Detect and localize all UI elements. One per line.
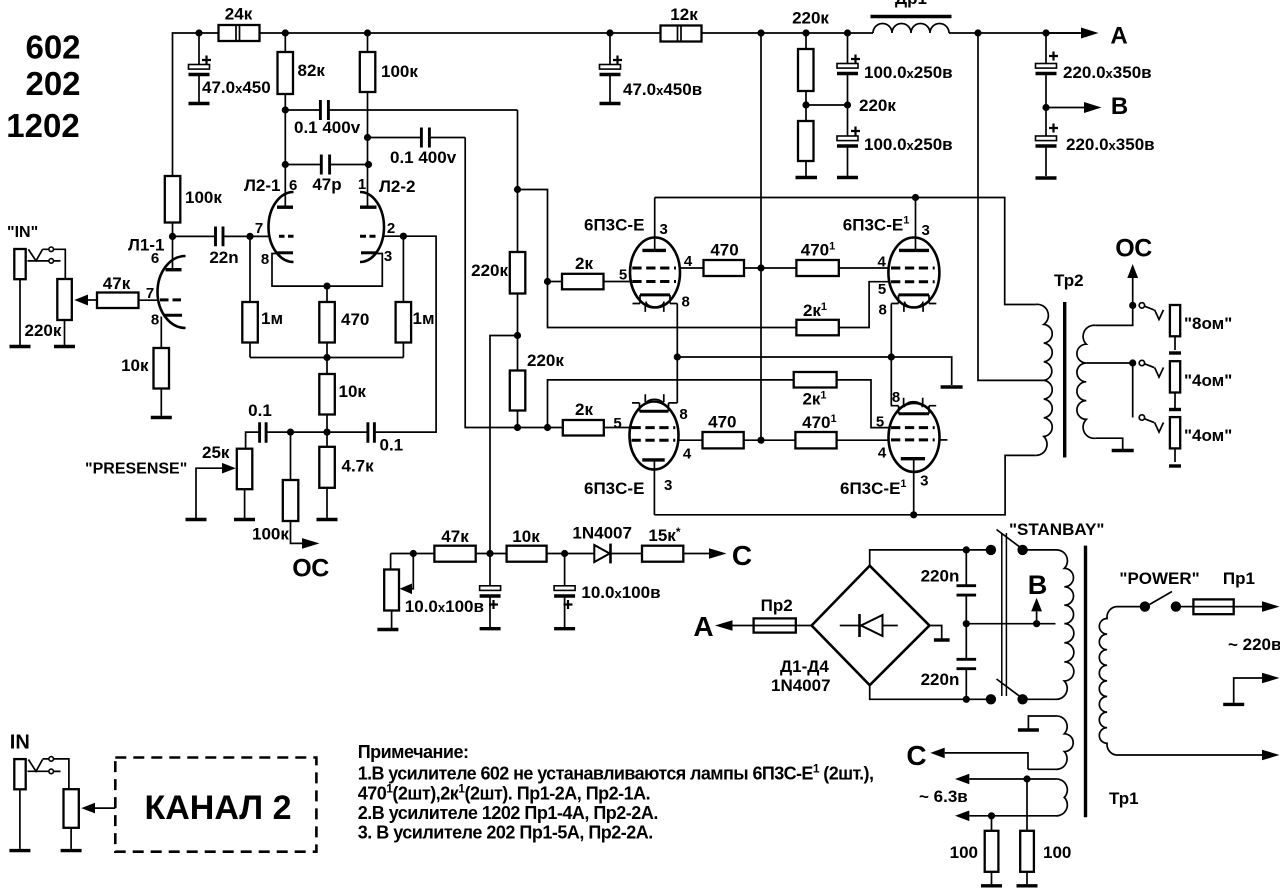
node cathode right <box>888 353 895 360</box>
capacitor 100.0x250v upper <box>847 33 849 105</box>
svg-text:25к: 25к <box>202 443 230 462</box>
svg-text:100к: 100к <box>381 62 418 81</box>
node lower row 2k1 <box>544 424 551 431</box>
svg-text:10.0х100в: 10.0х100в <box>581 583 660 602</box>
node B out <box>1042 104 1049 111</box>
node B+ feed <box>974 29 981 36</box>
svg-text:6П3С-Е: 6П3С-Е <box>584 479 644 498</box>
svg-text:2.В усилителе 1202 Пр1-4А, Пр2: 2.В усилителе 1202 Пр1-4А, Пр2-2А. <box>358 803 658 823</box>
cathode L2-1 <box>278 251 294 254</box>
svg-text:5: 5 <box>878 281 886 298</box>
wire bias row <box>391 553 595 555</box>
arrow pot wiper <box>88 299 97 301</box>
wire to 2k1 lower <box>548 380 794 428</box>
wire cathodes L2 <box>272 254 382 287</box>
resistor 470-1 upper <box>796 260 838 276</box>
potentiometer 220k input <box>57 279 72 320</box>
wire anode L2-2 <box>367 92 369 207</box>
anode L1-1 <box>166 268 182 271</box>
capacitor 10.0x100v left <box>489 554 491 628</box>
wire jack2 ground <box>19 789 21 849</box>
svg-text:7: 7 <box>146 285 154 302</box>
wire upper drive down <box>517 110 519 252</box>
wire 6.3v top <box>969 778 1055 780</box>
node cap2 top <box>606 29 613 36</box>
node 220k mid left <box>802 101 809 108</box>
node 100k2 top <box>364 29 371 36</box>
ground pot 220k <box>54 345 75 348</box>
switch linkage <box>1002 533 1007 696</box>
capacitor 220.0x350v upper <box>1045 33 1047 108</box>
ground 220.0x350v <box>1036 176 1057 179</box>
tube 6P3S-E1 lower-right <box>889 403 940 472</box>
svg-text:8: 8 <box>892 389 900 406</box>
svg-text:3: 3 <box>664 477 672 494</box>
node bias pot <box>410 550 417 557</box>
tube 6P3S-E upper-left <box>630 238 680 308</box>
wire cathode L1-1 <box>160 317 162 349</box>
wire anode bus bottom <box>654 455 1035 514</box>
screen grid UR pin4 <box>891 267 935 270</box>
node cathode bus L2 <box>323 283 330 290</box>
wire to 25k pot <box>246 432 260 449</box>
resistor 2k upper <box>548 281 563 283</box>
grid L2-2 <box>360 235 376 238</box>
node tail <box>323 354 330 361</box>
ground pot2 <box>61 849 82 852</box>
svg-text:Д1-Д4: Д1-Д4 <box>780 657 829 676</box>
node B mid <box>963 620 970 627</box>
wire mains bottom <box>1116 754 1262 756</box>
svg-text:"IN": "IN" <box>7 224 38 241</box>
transformer Tr1 HV winding <box>1056 550 1074 699</box>
resistor 10k bias <box>507 546 547 562</box>
potentiometer bias <box>390 554 392 570</box>
svg-text:5: 5 <box>613 415 621 432</box>
cathode L1-1 <box>164 314 183 317</box>
resistor 4.7k <box>326 432 328 447</box>
svg-text:3: 3 <box>660 221 668 238</box>
svg-text:0.1 400v: 0.1 400v <box>294 118 361 137</box>
node screen feed top <box>757 29 764 36</box>
wire top rail mid <box>260 32 662 34</box>
svg-text:6: 6 <box>289 177 297 194</box>
svg-text:220.0х350в: 220.0х350в <box>1063 63 1152 82</box>
svg-text:Пр1: Пр1 <box>1223 569 1255 588</box>
capacitor 22n <box>173 235 216 237</box>
node 100k fb top <box>287 429 294 436</box>
svg-text:47.0х450в: 47.0х450в <box>623 80 702 99</box>
svg-text:Л2-2: Л2-2 <box>379 177 416 196</box>
anode UR <box>915 198 917 251</box>
ground cap 47.0x450 <box>189 102 210 105</box>
svg-text:Пр2: Пр2 <box>761 596 793 615</box>
arrow bias wiper <box>412 554 413 589</box>
arrow A bridge out <box>715 620 733 631</box>
wire B+ to Tr2 CT <box>978 33 1044 380</box>
tube 6P3S-E1 upper-right <box>888 238 939 308</box>
svg-text:"4ом": "4ом" <box>1184 371 1232 390</box>
svg-text:8: 8 <box>879 302 887 319</box>
wire screen feed vertical <box>760 33 762 440</box>
svg-text:220к: 220к <box>471 261 508 280</box>
svg-text:47к: 47к <box>441 527 469 546</box>
node B arrow <box>1033 620 1040 627</box>
svg-text:С: С <box>732 540 752 571</box>
wire sec bottom <box>1096 438 1123 449</box>
anode LL <box>642 458 664 461</box>
resistor 470 lower <box>703 432 744 448</box>
arrow OC out <box>302 538 320 549</box>
plug 4om lower <box>1145 419 1164 432</box>
svg-text:8: 8 <box>682 294 690 311</box>
ground 4.7k <box>317 518 338 521</box>
screen grid LL pin4 <box>632 439 676 442</box>
svg-text:0.1 400v: 0.1 400v <box>390 148 457 167</box>
wire cathode UR down <box>890 304 892 358</box>
wire 4om lower branch <box>1132 363 1134 418</box>
svg-text:6: 6 <box>151 250 159 267</box>
svg-text:Тр2: Тр2 <box>1054 271 1084 290</box>
node 4.7k top <box>323 429 330 436</box>
ground 100.0x250v <box>837 176 858 179</box>
resistor 10k tail <box>326 358 328 375</box>
svg-text:5: 5 <box>619 267 627 284</box>
tube 6P3S-E lower-left <box>630 402 679 470</box>
fuse Pr1 <box>1181 606 1194 608</box>
svg-text:0.1: 0.1 <box>380 436 404 455</box>
svg-text:1202: 1202 <box>6 107 79 144</box>
capacitor 0.1 400v lower <box>364 134 371 141</box>
contact 8om <box>1139 303 1144 308</box>
plug 4om upper <box>1145 364 1164 377</box>
grid L2-1 <box>279 235 294 238</box>
plug 8om <box>1145 306 1164 319</box>
load 4om lower <box>1170 417 1180 448</box>
diode 1N4007 bias <box>594 545 609 562</box>
capacitor 47p <box>282 161 289 168</box>
ground 10k <box>151 416 172 419</box>
svg-text:В: В <box>1028 570 1048 600</box>
node 220k mid <box>514 332 521 339</box>
svg-text:220к: 220к <box>859 96 896 115</box>
switch standby top <box>986 545 996 555</box>
svg-text:4: 4 <box>878 445 887 462</box>
node 220n bottom <box>963 696 970 703</box>
switch standby bottom <box>986 694 996 704</box>
triode L1-1 envelope <box>158 256 186 328</box>
transformer Tr1 primary <box>1099 607 1116 755</box>
svg-text:4701(2шт),2к1(2шт). Пр1-2А, П: 4701(2шт),2к1(2шт). Пр1-2А, Пр2-1А. <box>358 782 650 804</box>
control grid LL pin5 <box>632 426 676 429</box>
potentiometer channel2 <box>64 789 79 828</box>
svg-text:24к: 24к <box>225 5 253 24</box>
svg-text:5: 5 <box>876 414 884 431</box>
capacitor 0.1 feedback right <box>368 422 375 443</box>
node upper drive split <box>514 186 521 193</box>
wire 47k to grid <box>139 299 160 301</box>
node 100.0x250 cap1 top <box>844 29 851 36</box>
ground 220k lower <box>796 176 818 179</box>
wire lower drive down <box>465 138 563 428</box>
contact 4om lower <box>1139 415 1144 420</box>
transformer Tr2 primary <box>1035 304 1052 455</box>
svg-text:470: 470 <box>710 241 738 260</box>
resistor 2k1 lower <box>794 372 837 388</box>
wire top rail right <box>702 32 1081 34</box>
svg-text:4.7к: 4.7к <box>342 457 375 476</box>
svg-text:100: 100 <box>950 843 978 862</box>
jack channel2 <box>14 759 25 789</box>
wire B out <box>1046 107 1084 109</box>
arrow C winding <box>930 748 944 759</box>
wire A out <box>1046 32 1081 34</box>
resistor 1M left <box>249 236 251 302</box>
svg-text:~ 220в: ~ 220в <box>1228 635 1280 654</box>
transformer Tr2 secondary <box>1077 325 1096 438</box>
wire 220k mid link <box>806 104 848 106</box>
ground jack2 <box>9 849 30 852</box>
jack input 1 <box>14 249 25 279</box>
core Tr1 <box>1084 546 1087 818</box>
svg-text:"PRESENSE": "PRESENSE" <box>85 461 187 478</box>
triode L2-1 envelope <box>269 192 294 262</box>
ground cap bias2 <box>554 627 575 630</box>
svg-text:3. В усилителе 202 Пр1-5А, Пр2: 3. В усилителе 202 Пр1-5А, Пр2-2А. <box>358 823 653 843</box>
node 220n top <box>963 546 970 553</box>
resistor 100k feedback <box>290 432 292 480</box>
wire grid L2-1 <box>250 235 270 237</box>
control grid LR pin5 <box>891 426 935 429</box>
resistor 47k grid <box>97 293 139 309</box>
wire tail bus <box>250 357 403 359</box>
grid L1-1 <box>160 298 181 301</box>
resistor 100 left <box>991 816 993 831</box>
arrow presence wiper <box>196 468 222 518</box>
node 220k mid right <box>844 101 851 108</box>
svg-text:100к: 100к <box>185 188 222 207</box>
node screen row lower <box>757 437 764 444</box>
cathode LL <box>640 410 669 413</box>
ground cap bias1 <box>480 627 501 630</box>
resistor 220k grid lower <box>510 371 526 411</box>
node cathode left <box>674 353 681 360</box>
arrow C out <box>709 548 727 559</box>
svg-text:8: 8 <box>261 251 269 268</box>
triode L2-2 envelope <box>360 192 384 262</box>
svg-text:10к: 10к <box>121 356 149 375</box>
contact 4om upper <box>1139 360 1144 365</box>
svg-text:10.0х100в: 10.0х100в <box>405 597 484 616</box>
ground jack1 <box>10 345 31 348</box>
capacitor 0.1 400v upper <box>282 106 289 113</box>
svg-text:100.0х250в: 100.0х250в <box>864 135 953 154</box>
resistor 100k (anode L1-1) <box>165 176 181 223</box>
svg-text:1: 1 <box>358 176 366 193</box>
cathode UL <box>640 293 670 296</box>
svg-text:8: 8 <box>679 406 687 423</box>
arrow B <box>1084 102 1102 113</box>
fuse Pr2 <box>733 625 754 627</box>
capacitor 10.0x100v right <box>564 554 566 628</box>
core Tr2 <box>1063 302 1066 458</box>
svg-text:220n: 220n <box>921 670 960 689</box>
wire C out <box>683 553 709 555</box>
resistor 47k bias <box>434 546 475 562</box>
wire cathode LR up <box>890 357 892 406</box>
screen grid UL pin4 <box>632 267 676 270</box>
svg-text:IN: IN <box>10 732 30 754</box>
wire anode L2-1 <box>284 94 286 207</box>
arrow OC up <box>1127 264 1138 278</box>
svg-text:602: 602 <box>25 29 80 66</box>
svg-text:220к: 220к <box>527 351 564 370</box>
wire bridge bottom to standby <box>870 685 987 699</box>
node anode bus top <box>912 194 919 201</box>
resistor 220k upper <box>805 33 807 121</box>
svg-text:100.0х250в: 100.0х250в <box>864 63 953 82</box>
node 6.3v bottom <box>988 812 995 819</box>
svg-text:2: 2 <box>387 220 395 237</box>
svg-text:"POWER": "POWER" <box>1119 569 1199 588</box>
arrow mains neutral <box>1262 673 1280 684</box>
capacitor 100.0x250v lower <box>847 105 849 176</box>
arrow mains live <box>1262 601 1280 612</box>
wire B mid rail <box>966 623 1055 625</box>
wire cathode UL down <box>676 304 678 358</box>
anode L2-1 <box>277 205 293 208</box>
svg-text:ОС: ОС <box>1115 235 1152 263</box>
control grid UL pin5 <box>632 280 676 283</box>
svg-text:6П3С-Е: 6П3С-Е <box>584 216 644 235</box>
node A out <box>1042 29 1049 36</box>
wire cathode LL up <box>676 357 678 403</box>
svg-text:1N4007: 1N4007 <box>771 676 831 695</box>
svg-text:6П3С-Е1: 6П3С-Е1 <box>843 215 910 235</box>
svg-text:Др1: Др1 <box>895 0 927 8</box>
svg-text:3: 3 <box>384 248 392 265</box>
resistor 220k lower <box>798 121 814 161</box>
svg-text:Тр1: Тр1 <box>1109 789 1139 808</box>
resistor 100 right <box>1026 779 1028 831</box>
resistor 470 upper <box>704 260 745 276</box>
anode L2-2 <box>360 205 377 208</box>
arrow B up <box>1036 611 1038 623</box>
svg-text:1м: 1м <box>261 309 283 328</box>
wire 6.3v bottom <box>969 815 1055 817</box>
ground mains <box>1223 703 1244 706</box>
anode UL <box>654 198 656 251</box>
resistor 10k cathode <box>154 348 170 389</box>
svg-text:47.0х450: 47.0х450 <box>202 78 271 97</box>
svg-text:КАНАЛ 2: КАНАЛ 2 <box>144 789 291 827</box>
wire top rail left <box>173 33 220 236</box>
capacitor 220.0x350v lower <box>1045 108 1047 177</box>
wire bias tap <box>490 336 518 554</box>
svg-text:1N4007: 1N4007 <box>572 524 632 543</box>
arrow pot2 wiper <box>95 807 115 809</box>
svg-text:6П3С-Е1: 6П3С-Е1 <box>840 478 907 498</box>
svg-text:ОС: ОС <box>292 555 329 583</box>
choke Dr1 <box>873 24 949 34</box>
wire presence row <box>266 431 368 433</box>
wire anode bus top <box>655 198 1036 305</box>
resistor 470-1 lower <box>795 432 836 448</box>
anode LR <box>901 457 925 460</box>
ground bridge <box>934 638 950 641</box>
wire sec mid tap <box>1086 362 1132 364</box>
svg-text:470: 470 <box>708 412 736 431</box>
capacitor 47.0x450 <box>198 33 200 102</box>
svg-text:4: 4 <box>683 446 692 463</box>
svg-text:4: 4 <box>684 253 693 270</box>
svg-text:Примечание:: Примечание: <box>358 742 469 762</box>
svg-text:А: А <box>693 611 713 642</box>
node anode bus bottom <box>910 511 917 518</box>
resistor 470 tail <box>326 286 328 302</box>
wire C winding bottom out <box>945 753 1056 769</box>
ground cathode bus <box>941 385 963 388</box>
potentiometer 25k <box>237 449 253 490</box>
svg-text:~ 6.3в: ~ 6.3в <box>919 787 968 806</box>
resistor 220k grid upper <box>510 252 526 294</box>
capacitor 220n upper <box>965 550 967 624</box>
resistor 15k* bias <box>642 546 683 562</box>
node bias mid <box>486 550 493 557</box>
svg-text:220.0х350в: 220.0х350в <box>1066 135 1155 154</box>
svg-text:470: 470 <box>341 310 369 329</box>
svg-text:220к: 220к <box>792 9 829 28</box>
arrow mains bottom <box>1262 750 1280 761</box>
switch POWER <box>1116 606 1140 608</box>
node bias right <box>561 550 568 557</box>
svg-text:100к: 100к <box>252 525 289 544</box>
svg-text:100: 100 <box>1043 843 1071 862</box>
svg-text:2к: 2к <box>575 400 593 419</box>
svg-text:3: 3 <box>922 222 930 239</box>
cathode UR <box>899 293 930 296</box>
transformer Tr1 6.3v winding <box>1056 779 1068 816</box>
resistor 12k <box>661 26 702 42</box>
node rail-cap1 <box>195 29 202 36</box>
node screen row upper <box>757 264 764 271</box>
wire C winding top to ground <box>1028 716 1055 729</box>
wire grid L2-2 right <box>375 236 437 432</box>
svg-text:10к: 10к <box>512 527 540 546</box>
ground Tr2 secondary <box>1112 449 1134 452</box>
svg-text:А: А <box>1110 23 1127 50</box>
transformer Tr1 C winding <box>1056 716 1074 769</box>
svg-text:Л2-1: Л2-1 <box>244 176 281 195</box>
svg-text:47р: 47р <box>312 175 341 194</box>
wire cathode bus <box>677 357 951 385</box>
resistor 24k <box>219 25 260 41</box>
node 4om tap <box>1129 359 1136 366</box>
svg-text:220n: 220n <box>921 567 960 586</box>
svg-text:82к: 82к <box>298 61 326 80</box>
node 6.3v top <box>1023 775 1030 782</box>
load 8om <box>1170 305 1180 336</box>
svg-text:"8ом": "8ом" <box>1184 314 1232 333</box>
capacitor 0.1 presence left <box>260 422 267 443</box>
wire to 2k1 upper <box>548 282 797 328</box>
ground bias pot <box>377 628 398 631</box>
svg-text:С: С <box>906 740 926 771</box>
control grid UR pin5 <box>891 280 935 283</box>
ground 25k <box>234 518 255 521</box>
resistor 100k (anode L2-2) <box>367 33 369 52</box>
load 4om upper <box>1170 361 1180 392</box>
